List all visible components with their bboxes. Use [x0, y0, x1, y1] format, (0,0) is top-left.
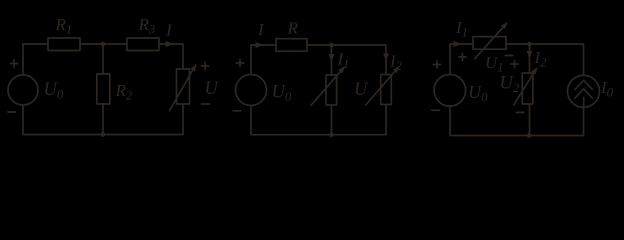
svg-text:R: R: [287, 19, 299, 38]
svg-text:U: U: [354, 80, 369, 100]
svg-text:U: U: [205, 79, 220, 99]
